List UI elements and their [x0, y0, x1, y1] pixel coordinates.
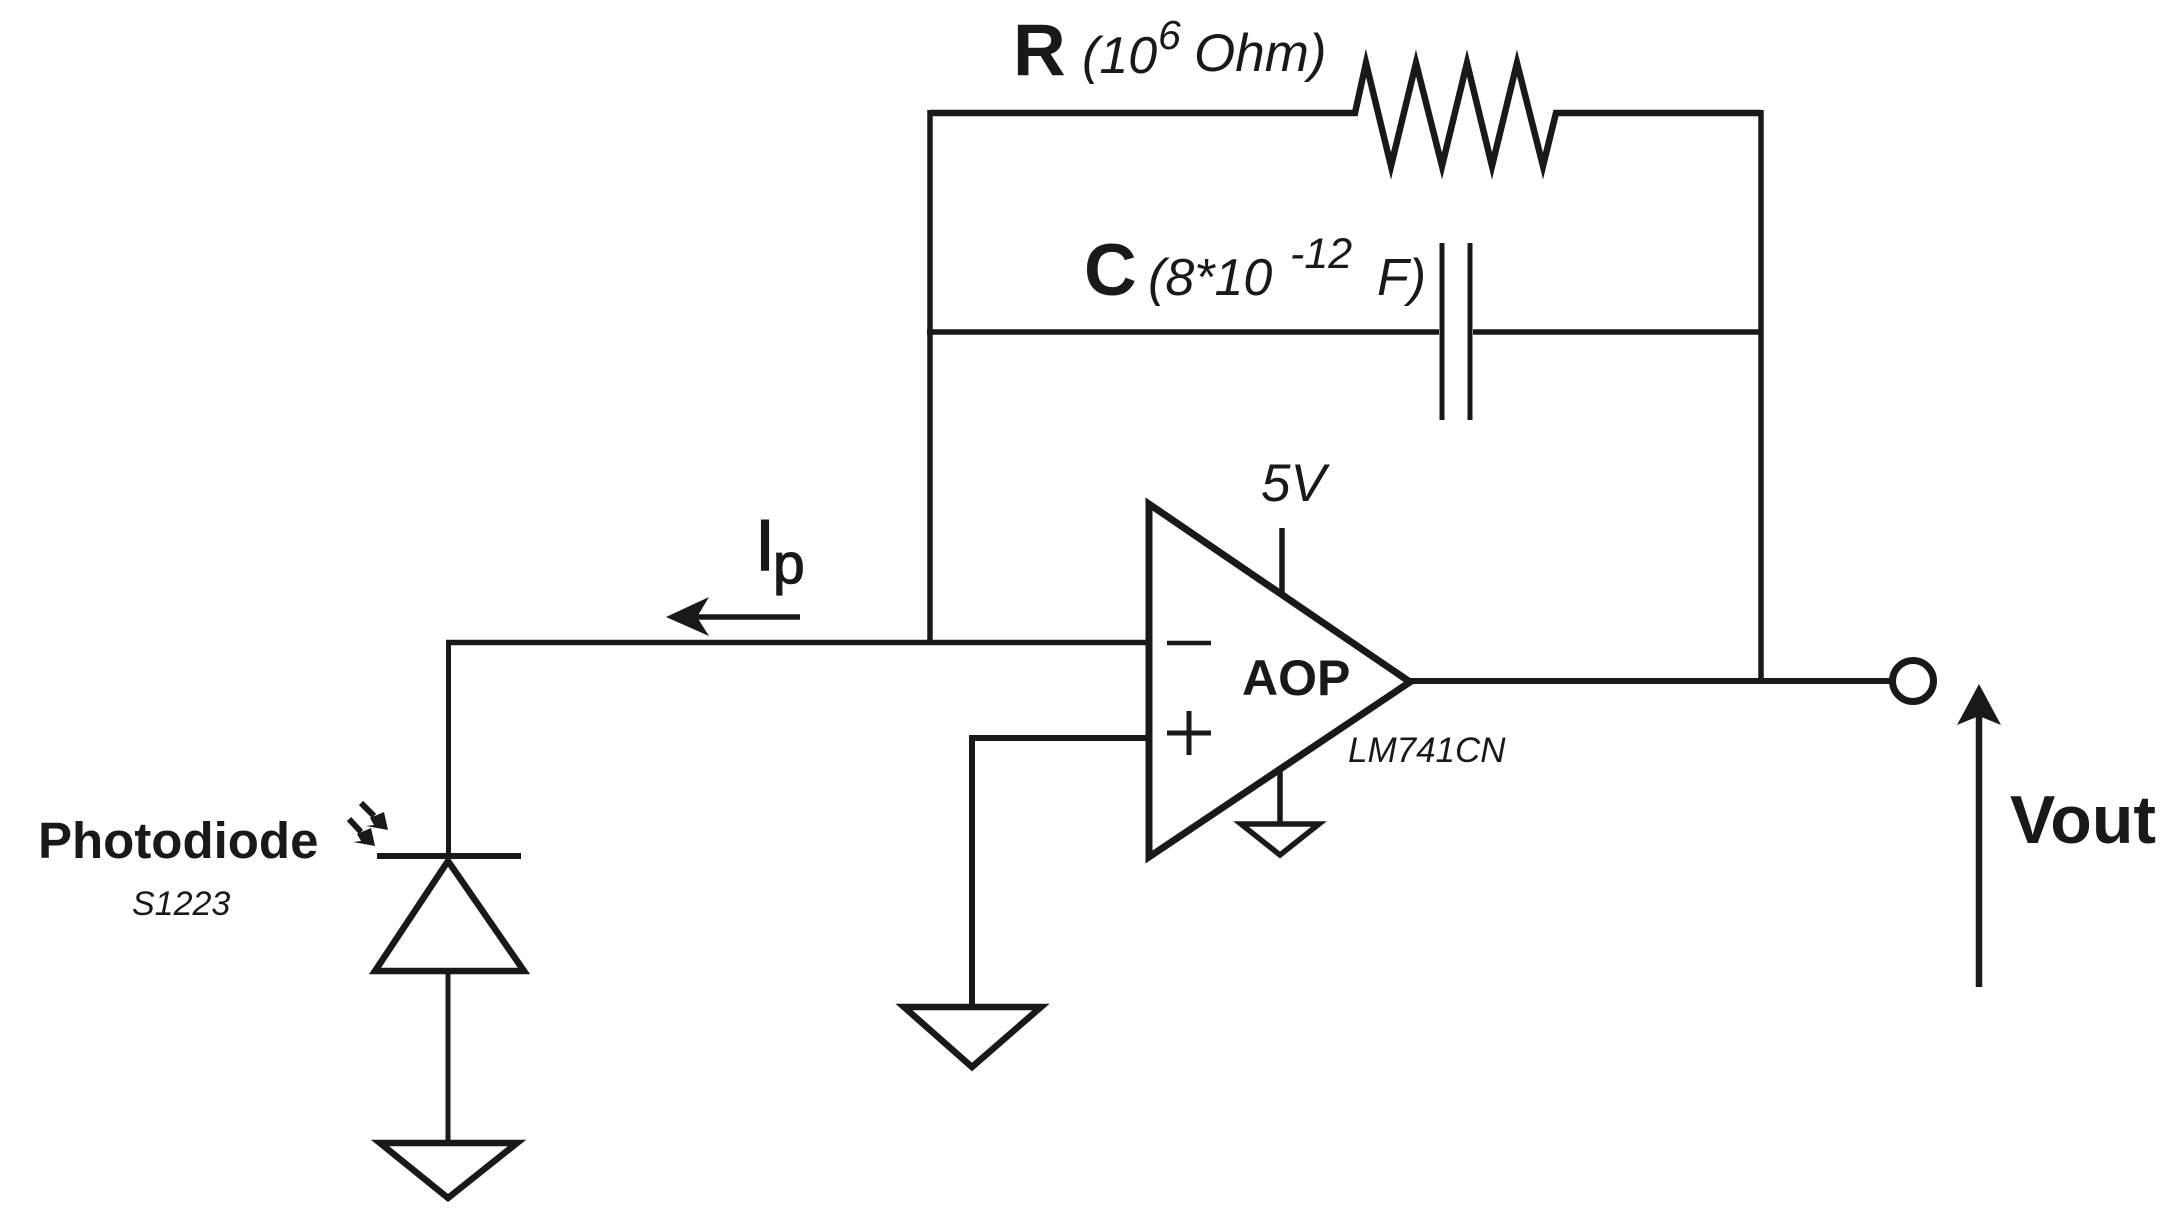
svg-text:AOP: AOP: [1242, 650, 1350, 706]
svg-text:Ohm): Ohm): [1194, 24, 1327, 83]
svg-text:Photodiode: Photodiode: [38, 812, 318, 869]
svg-text:(8*10: (8*10: [1148, 249, 1272, 307]
svg-text:(10: (10: [1082, 27, 1157, 85]
svg-text:R: R: [1013, 10, 1066, 91]
svg-text:S1223: S1223: [132, 885, 230, 923]
svg-text:5V: 5V: [1261, 454, 1330, 513]
svg-text:6: 6: [1158, 12, 1181, 58]
svg-text:Vout: Vout: [2010, 782, 2156, 858]
svg-text:LM741CN: LM741CN: [1348, 731, 1506, 770]
svg-text:-12: -12: [1290, 230, 1352, 278]
svg-text:p: p: [773, 532, 805, 596]
svg-text:F): F): [1377, 249, 1426, 307]
svg-text:I: I: [755, 506, 775, 586]
svg-text:C: C: [1084, 230, 1137, 311]
